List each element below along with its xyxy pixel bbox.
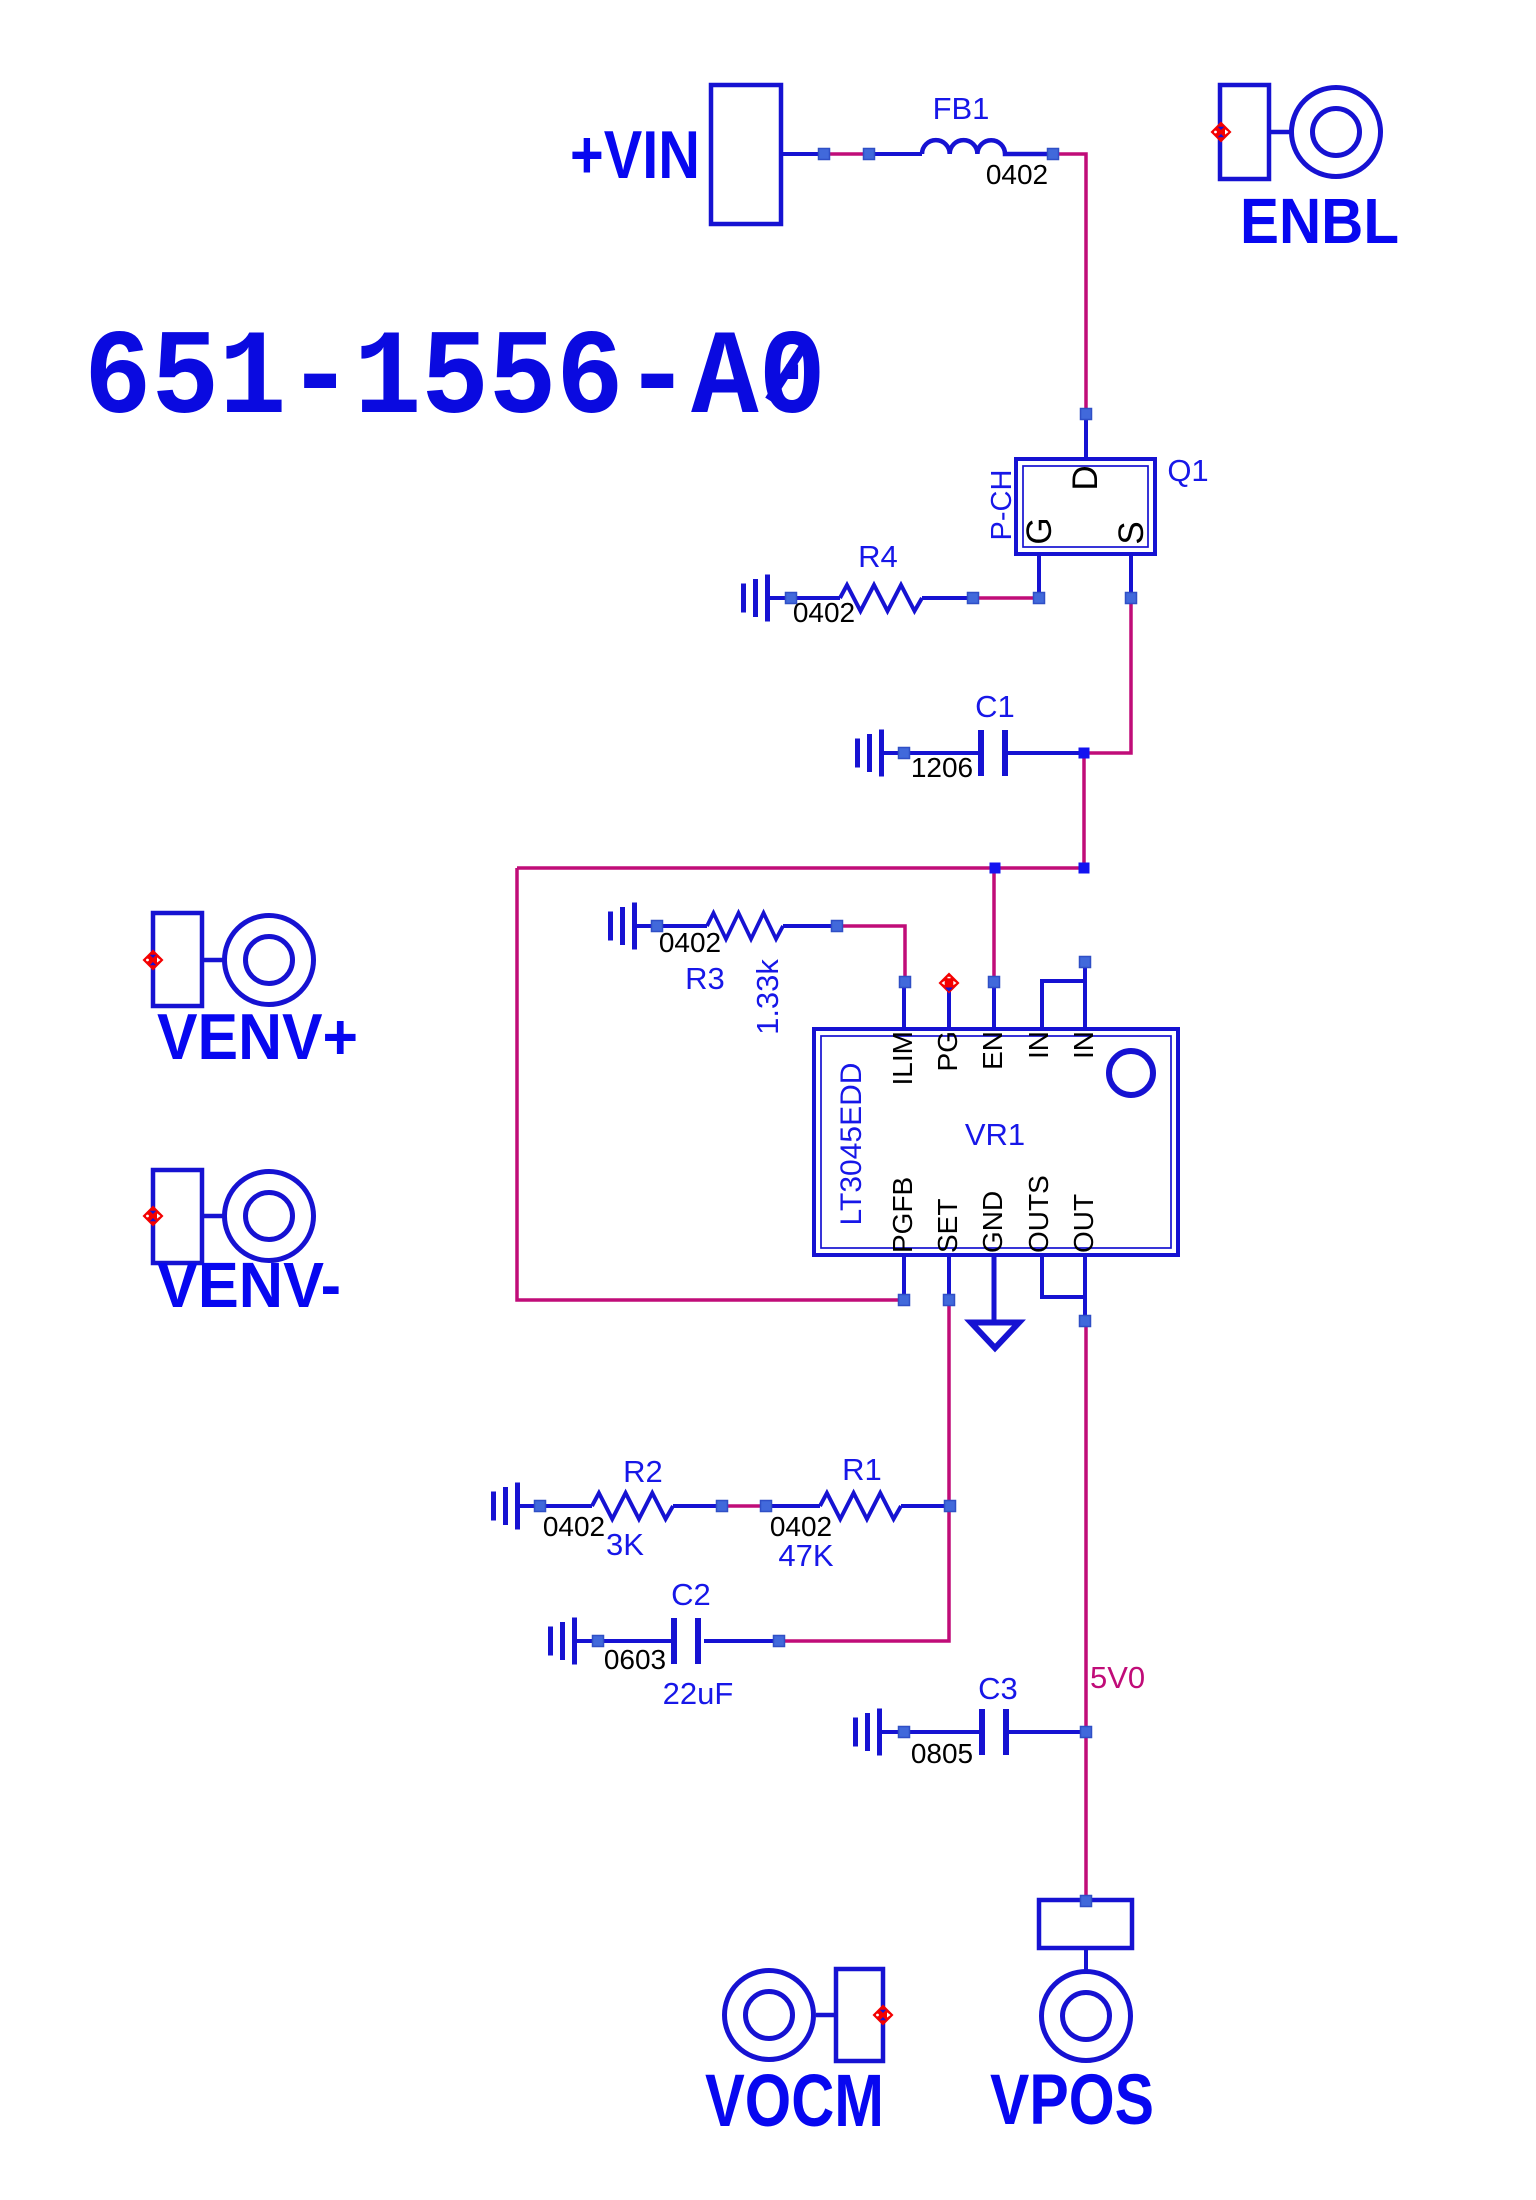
svg-text:GND: GND (977, 1191, 1008, 1253)
svg-text:1.33k: 1.33k (750, 959, 785, 1035)
svg-text:VPOS: VPOS (990, 2061, 1154, 2140)
svg-text:Q1: Q1 (1167, 453, 1208, 488)
svg-text:0402: 0402 (986, 159, 1048, 190)
svg-text:G: G (1020, 517, 1059, 544)
svg-text:0402: 0402 (543, 1511, 605, 1542)
svg-text:P-CH: P-CH (986, 470, 1018, 541)
svg-text:R4: R4 (858, 539, 898, 574)
svg-text:+VIN: +VIN (570, 117, 700, 193)
svg-text:VENV+: VENV+ (157, 1000, 358, 1073)
svg-text:3K: 3K (606, 1527, 644, 1562)
svg-text:651-1556-A0: 651-1556-A0 (84, 312, 826, 449)
svg-text:S: S (1112, 521, 1151, 544)
svg-text:C1: C1 (975, 689, 1015, 724)
svg-text:SET: SET (932, 1199, 963, 1253)
svg-text:C3: C3 (978, 1671, 1018, 1706)
svg-text:PG: PG (932, 1031, 963, 1071)
svg-text:22uF: 22uF (663, 1676, 734, 1711)
svg-text:D: D (1066, 465, 1105, 490)
svg-text:FB1: FB1 (933, 91, 990, 126)
svg-text:R2: R2 (623, 1454, 663, 1489)
svg-text:0402: 0402 (659, 927, 721, 958)
svg-text:IN: IN (1068, 1031, 1099, 1059)
svg-text:5V0: 5V0 (1090, 1660, 1145, 1695)
svg-text:OUT: OUT (1068, 1194, 1099, 1253)
svg-text:0402: 0402 (793, 597, 855, 628)
svg-text:EN: EN (977, 1031, 1008, 1070)
svg-text:ENBL: ENBL (1240, 185, 1399, 257)
svg-text:VR1: VR1 (965, 1117, 1025, 1152)
svg-text:C2: C2 (671, 1577, 711, 1612)
svg-text:IN: IN (1023, 1031, 1054, 1059)
svg-text:PGFB: PGFB (887, 1177, 918, 1253)
svg-text:VOCM: VOCM (705, 2059, 884, 2142)
svg-text:0603: 0603 (604, 1644, 666, 1675)
svg-text:0805: 0805 (911, 1738, 973, 1769)
svg-text:ILIM: ILIM (887, 1031, 918, 1085)
svg-text:OUTS: OUTS (1023, 1175, 1054, 1253)
svg-text:R3: R3 (685, 961, 725, 996)
svg-text:R1: R1 (842, 1452, 882, 1487)
svg-text:1206: 1206 (911, 752, 973, 783)
svg-text:LT3045EDD: LT3045EDD (835, 1063, 868, 1226)
svg-text:47K: 47K (778, 1538, 833, 1573)
svg-text:VENV-: VENV- (157, 1249, 341, 1321)
